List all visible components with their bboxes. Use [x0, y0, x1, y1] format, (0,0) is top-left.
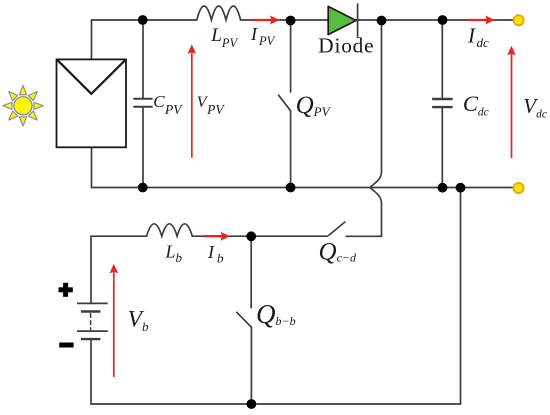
svg-text:Diode: Diode: [318, 33, 374, 57]
